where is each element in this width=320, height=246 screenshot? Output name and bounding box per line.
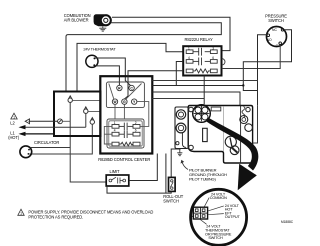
svg-text:1: 1 [20,212,22,216]
svg-text:G: G [123,100,126,104]
terminal G [122,99,127,104]
svg-text:4: 4 [114,129,116,133]
svg-text:(HOT): (HOT) [8,135,20,140]
control center box [100,76,152,153]
svg-text:SWITCH: SWITCH [208,236,223,240]
relay side bump terminal [222,59,225,65]
svg-text:SWITCH: SWITCH [163,199,179,204]
wire nut C [90,118,94,125]
control contacts row 4-6 [112,130,140,138]
module spring contact [242,107,245,118]
wire pressure switch NO down [258,35,267,106]
pressure switch label [265,13,287,22]
svg-text:LIMIT: LIMIT [110,169,121,174]
junction terminal slashed circle [58,119,63,124]
detail connector plug [191,207,208,219]
pressure switch PS1 [267,27,287,48]
svg-text:R8222U RELAY: R8222U RELAY [185,37,213,42]
wire nut C to circulator lower [30,124,93,154]
relay R8222U box [183,46,221,75]
wire control center to roll-out run [165,154,167,194]
wire relay bottom to module pilot circle [203,76,205,105]
svg-text:4: 4 [188,56,190,60]
wire thermostat upper to terminal C [96,58,131,86]
wire NO vertical lower [253,105,258,143]
wire thermostat lower to terminal R [95,66,119,85]
wire nut A to circulator and limit [70,103,106,183]
module screw top-right [246,107,250,111]
wire module bracket to roll-out switch [171,149,180,177]
detail circle [191,189,247,245]
wire junction box to relay terminal 1 [77,43,183,91]
wire H to module terminal [152,92,240,105]
svg-text:PILOT TUBING): PILOT TUBING) [189,176,216,181]
svg-text:AIR BLOWER: AIR BLOWER [64,18,89,23]
wire nut A horizontal [72,99,100,101]
blower ground symbol [99,26,106,31]
ignition module body [188,106,252,164]
module ground symbol [177,149,182,156]
wire pressure switch NC to node [243,30,291,86]
module gas knob [225,136,239,154]
control relay sub-box [107,119,144,148]
thermostat T1 [86,55,98,67]
circulator M1 [20,146,32,158]
relay row 2 contacts [186,58,217,66]
module terminal circle right lower [245,124,253,132]
junction box [54,92,101,137]
svg-text:1: 1 [188,46,190,50]
wire relay row3 to terminal G [124,71,183,99]
pilot burner ground label [181,160,227,182]
wire nut B [84,107,88,114]
svg-text:1: 1 [13,115,15,119]
svg-text:2: 2 [135,121,137,125]
terminal R [117,85,122,90]
thick L1 bus junction box to control center [54,135,100,137]
svg-text:1: 1 [114,121,116,125]
svg-text:3: 3 [212,46,214,50]
wire node to NO line [243,86,257,91]
svg-text:NO: NO [267,38,272,42]
wire H control to NO line [152,80,257,82]
svg-text:OUTPUT: OUTPUT [225,215,241,219]
combustion air blower icon [94,14,112,26]
wire to circulator upper [31,147,70,149]
control coil row [112,142,140,146]
module divider line [240,106,242,163]
L2 feed arrow [19,125,86,129]
wire relay row2 down [176,62,183,86]
terminal Y [132,99,137,104]
L1 hot feed arrow [19,132,55,136]
module pilot adjustment circle [193,105,211,123]
wire nut B horizontal [88,111,100,113]
svg-text:NC: NC [272,28,277,32]
svg-text:M1888C: M1888C [281,220,294,224]
control contacts row 1-2 [112,123,140,131]
note triangle 1 [18,209,24,216]
wire blower bottom to junction box [66,23,221,92]
wire pressure switch C to relay bump [222,45,280,69]
svg-text:PROTECTION AS REQUIRED.: PROTECTION AS REQUIRED. [28,214,83,219]
module screw top-left [189,107,194,112]
svg-text:R8285D CONTROL CENTER: R8285D CONTROL CENTER [98,157,150,162]
L2 open arrow to slashed circle [25,119,57,124]
limit switch box [106,175,129,186]
terminal W [112,99,117,104]
wire slashed circle stub [62,120,70,122]
relay row 1 contacts [186,48,217,56]
module terminal circle right [240,116,248,124]
terminal C [129,85,134,90]
wire limit to roll-out switch [107,186,171,193]
detail labels [200,192,240,240]
junction dot [242,84,244,86]
svg-text:SWITCH: SWITCH [268,18,284,23]
svg-text:6: 6 [135,129,137,133]
control center terminal sub-box [106,82,144,108]
wire H relay area to node dot [152,85,243,87]
module inner seam [222,106,224,152]
svg-text:COMMON: COMMON [210,196,227,200]
svg-text:W: W [113,100,116,104]
module terminal strip [203,128,208,141]
magnifier arrow [207,117,259,190]
caution triangle 1 [11,113,17,119]
svg-text:24V THERMOSTAT: 24V THERMOSTAT [83,47,116,52]
svg-text:6: 6 [212,56,214,60]
wire nut B to L2 line [85,114,87,128]
wire limit to control center [129,154,158,181]
control center interior wires [104,84,149,145]
module label plate [211,107,221,111]
relay coil row [186,69,217,73]
roll-out switch box [169,177,176,191]
module left bracket [175,107,188,149]
combustion air blower label [64,13,91,22]
wire blower top to relay terminal 3 [112,17,230,50]
module screw bottom-left [189,145,194,150]
wire nut A [68,96,72,103]
svg-text:CIRCULATOR: CIRCULATOR [34,140,59,145]
wire H control to module [152,98,204,100]
